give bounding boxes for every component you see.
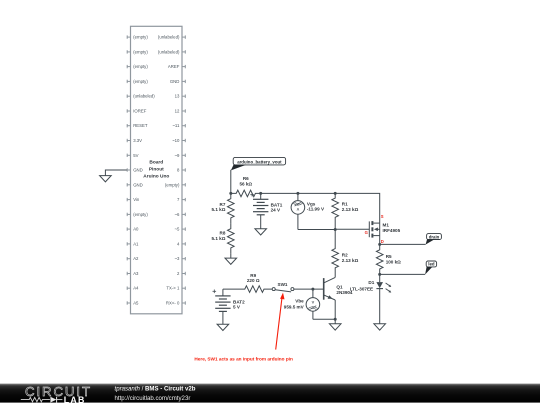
wire top net (battery+ rail to M1 source) [261,193,380,223]
diode D1 LTL-307EE (LED) [376,274,391,324]
svg-text:R2: R2 [342,253,348,258]
svg-text:R6: R6 [243,176,249,181]
svg-text:5.1 kΩ: 5.1 kΩ [211,236,225,241]
svg-text:12: 12 [175,109,180,114]
pin left 13 (empty) [127,212,148,217]
wire flag to node A [230,170,232,194]
label R2 2.13 kΩ [342,253,359,264]
pin label D [381,239,384,244]
pin right 12 7 [177,197,186,202]
svg-text:(unlabeled): (unlabeled) [158,49,180,54]
node led junction [378,273,381,276]
ground (R8) [225,258,237,264]
label R7 5.1 kΩ [211,202,225,212]
svg-text:~11: ~11 [172,123,180,128]
svg-text:~10: ~10 [172,138,180,143]
pin left 1 (empty) [127,35,148,40]
svg-text:-11.99 V: -11.99 V [307,207,325,212]
pin right 19 RX<- 0 [166,301,186,306]
svg-text:M1: M1 [383,223,390,228]
svg-text:led: led [428,262,435,267]
pin left 14 A0 [127,227,139,232]
node emitter junction [334,318,337,321]
resistor R8 [228,223,235,253]
svg-text:Vbe: Vbe [295,298,304,303]
label BAT1 24 V [271,203,283,213]
svg-text:LAB: LAB [64,395,85,405]
pin right 1 (unlabeled) [158,35,186,40]
svg-text:(unlabeled): (unlabeled) [133,94,155,99]
wire BAT1 to ground [260,215,262,229]
svg-text:RX<- 0: RX<- 0 [166,301,180,306]
resistor R9 [223,286,272,293]
label R8 5.1 kΩ [211,231,225,241]
pin right 16 ~3 [174,256,185,261]
pin right 17 2 [177,271,186,276]
svg-text:tprasanth / BMS - Circuit v2b: tprasanth / BMS - Circuit v2b [115,386,196,393]
pin left 9 5V [127,153,139,158]
pin right 15 4 [177,241,186,246]
pin right 13 ~6 [174,212,185,217]
wire arduino GND pin to ground [105,170,127,176]
label Vgs -11.99 V [307,202,325,212]
svg-text:GND: GND [133,182,143,187]
annotation text [194,356,293,361]
svg-text:A5: A5 [133,301,139,306]
svg-text:R7: R7 [220,202,226,207]
svg-text:G: G [365,230,368,235]
pin left 2 (empty) [127,49,148,54]
svg-text:AREF: AREF [168,64,180,69]
ground (D1) [374,324,386,330]
svg-text:D1: D1 [368,280,374,285]
pin left 3 (empty) [127,64,148,69]
svg-text:~6: ~6 [174,212,180,217]
svg-text:(empty): (empty) [133,79,148,84]
svg-text:D: D [381,239,384,244]
resistor R1 [332,193,339,229]
svg-text:arduino_battery_vout: arduino_battery_vout [237,159,282,164]
label SW1 [278,282,288,287]
svg-text:R5: R5 [386,254,392,259]
svg-text:GND: GND [170,79,180,84]
label Vbe 959.5 mV [284,298,305,309]
svg-text:5.1 kΩ: 5.1 kΩ [211,207,225,212]
svg-text:LTL-307EE: LTL-307EE [350,286,373,291]
svg-text:(empty): (empty) [133,212,148,217]
svg-text:(empty): (empty) [133,64,148,69]
svg-text:A2: A2 [133,256,139,261]
pin right 2 (unlabeled) [158,49,186,54]
label R6 56 kΩ [239,176,252,186]
transistor Q1 2N3904 (NPN) [324,277,336,300]
ground (arduino GND) [100,176,112,182]
node base junction [311,288,314,291]
pin right 14 ~5 [174,227,185,232]
net flag led [425,261,437,275]
svg-text:GND: GND [133,168,143,173]
svg-text:drain: drain [429,234,440,239]
svg-text:~9: ~9 [174,153,180,158]
logo resistor-diode glyph [21,397,63,403]
resistor R5 [376,244,383,274]
pin label G [365,230,368,235]
node Vgs top junction [296,192,299,195]
resistor R7 [228,193,235,223]
logo LAB [64,395,85,405]
net flag arduino_battery_vout [231,157,286,170]
pin right 4 GND [170,79,186,84]
pin left 8 3.3V [127,138,142,143]
pin right 18 TX-> 1 [166,286,185,291]
label M1 IRF4905 [383,223,401,234]
svg-text:24 V: 24 V [271,208,281,213]
pin right 9 ~9 [174,153,185,158]
svg-text:(empty): (empty) [165,182,180,187]
pin left 4 (empty) [127,79,148,84]
pin right 5 13 [175,94,186,99]
svg-text:IRF4905: IRF4905 [383,228,401,233]
wire Vgs to gate node [298,229,335,231]
node gate junction [334,228,337,231]
pin left 17 A3 [127,271,139,276]
svg-text:~3: ~3 [174,256,180,261]
label Board Pinout Aruino Uno [143,160,169,180]
pin left 6 IOREF [127,109,147,114]
pin left 11 GND [127,182,143,187]
wire BAT2 to ground [222,311,224,324]
svg-text:R1: R1 [342,201,348,206]
resistor R6 [231,190,261,197]
transistor M1 IRF4905 (PMOS) [369,221,379,244]
svg-text:Here, SW1 acts as an input fro: Here, SW1 acts as an input from arduino … [194,356,293,361]
net flag drain [426,234,442,245]
label BAT2 5 V [233,300,245,310]
pin left 5 (unlabeled) [127,94,155,99]
node A junction (R6/R7/flag) [229,192,232,195]
svg-text:100 kΩ: 100 kΩ [386,260,401,265]
footer title tprasanth / BMS - Circuit v2b [115,386,196,393]
pin right 6 12 [175,109,186,114]
resistor R2 [332,230,339,278]
svg-text:R8: R8 [220,231,226,236]
label D1 LTL-307EE [350,280,375,291]
svg-text:A1: A1 [133,241,139,246]
wire led node to flag [380,273,425,275]
wire base net (SW1 to Q1 base) [294,288,324,290]
annotation arrow to SW1 [276,293,285,350]
wire drain node to flag [380,243,426,245]
wire R8 to ground [230,253,232,258]
label Q1 2N3904 [336,284,353,294]
pin right 7 ~11 [172,123,185,128]
voltmeter Vgs [291,193,305,229]
label R1 2.13 kΩ [342,201,359,212]
pin left 7 RESET [127,123,148,128]
wire Vbe to emitter net [313,318,335,320]
pin label S [381,214,384,219]
svg-text:http://circuitlab.com/cmty23r: http://circuitlab.com/cmty23r [115,395,191,402]
svg-text:A0: A0 [133,227,139,232]
node drain junction [378,243,381,246]
svg-text:Pinout: Pinout [149,167,164,173]
svg-text:TX-> 1: TX-> 1 [166,286,180,291]
svg-text:Board: Board [149,160,163,166]
ground (BAT2) [217,324,229,330]
svg-text:RESET: RESET [133,123,148,128]
battery BAT2 [213,289,231,311]
IC U1 Board Pinout Arduino Uno body [131,26,183,314]
node R1 top junction [334,192,337,195]
svg-text:Q1: Q1 [336,284,343,289]
pin left 19 A5 [127,301,139,306]
voltmeter Vbe [306,289,320,319]
svg-text:56 kΩ: 56 kΩ [239,182,252,187]
svg-text:2.13 kΩ: 2.13 kΩ [342,258,359,263]
svg-text:Vin: Vin [133,197,140,202]
svg-text:R9: R9 [250,273,256,278]
svg-text:A3: A3 [133,271,139,276]
battery BAT1 [250,193,268,215]
svg-text:5V: 5V [133,153,138,158]
svg-text:SW1: SW1 [278,282,288,287]
pin right 11 (empty) [165,182,186,187]
svg-text:V: V [312,300,315,305]
pin left 16 A2 [127,256,139,261]
pin left 12 Vin [127,197,140,202]
svg-text:2.13 kΩ: 2.13 kΩ [342,207,359,212]
svg-text:Aruino Uno: Aruino Uno [143,173,169,179]
node BAT1 top junction [259,192,262,195]
svg-text:13: 13 [175,94,180,99]
wire gate node to M1 gate [335,228,369,230]
pin right 3 AREF [168,64,186,69]
label R9 220 Ω [247,273,260,283]
logo CIRCUIT [25,384,90,399]
svg-text:~5: ~5 [174,227,180,232]
ground (BAT1) [255,229,267,235]
pin right 10 8 [177,168,186,173]
pin left 10 GND [127,168,143,173]
svg-text:5 V: 5 V [233,305,241,310]
label R5 100 kΩ [386,254,401,265]
svg-text:(empty): (empty) [133,49,148,54]
switch SW1 [272,288,294,292]
pin left 15 A1 [127,241,139,246]
ground (Q1) [329,324,341,330]
footer bar [0,384,540,403]
pin left 18 A4 [127,286,139,291]
pin right 8 ~10 [172,138,185,143]
svg-text:220 Ω: 220 Ω [247,278,260,283]
svg-text:A4: A4 [133,286,139,291]
svg-text:S: S [381,214,384,219]
svg-text:(unlabeled): (unlabeled) [158,35,180,40]
svg-text:V: V [296,207,299,212]
svg-text:2N3904: 2N3904 [336,290,353,295]
wire emitter to ground [334,300,336,324]
svg-text:IOREF: IOREF [133,109,147,114]
footer url [115,395,191,402]
svg-text:959.5 mV: 959.5 mV [284,304,305,309]
svg-text:(empty): (empty) [133,35,148,40]
svg-text:3.3V: 3.3V [133,138,142,143]
